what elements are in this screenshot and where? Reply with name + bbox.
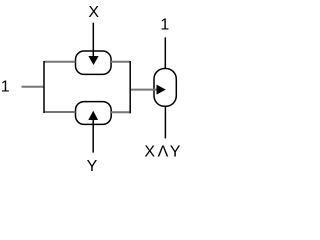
svg-text:X: X (144, 143, 155, 160)
svg-text:Y: Y (170, 143, 181, 160)
svg-text:X: X (88, 4, 99, 21)
svg-text:Λ: Λ (158, 143, 169, 160)
svg-text:1: 1 (1, 79, 10, 96)
svg-text:1: 1 (160, 16, 169, 33)
svg-text:Y: Y (87, 158, 98, 175)
